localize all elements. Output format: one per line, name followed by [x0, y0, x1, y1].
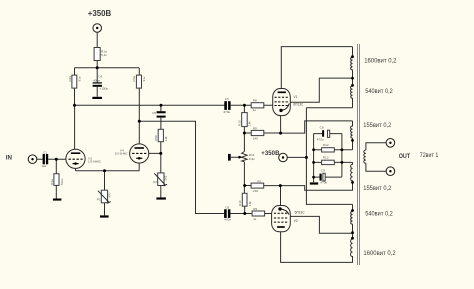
svg-text:1М: 1М [248, 121, 252, 126]
svg-text:+100µ: +100µ [99, 86, 108, 90]
svg-text:R4а: R4а [50, 179, 54, 185]
svg-text:6П13С: 6П13С [295, 210, 306, 214]
svg-text:5,1к: 5,1к [101, 53, 107, 57]
svg-text:91к: 91к [78, 76, 82, 81]
svg-text:С6: С6 [225, 205, 229, 209]
svg-text:R10: R10 [238, 200, 242, 206]
svg-text:510к: 510к [60, 178, 64, 185]
svg-text:72вит 1: 72вит 1 [420, 152, 439, 159]
svg-text:155вит 0,2: 155вит 0,2 [363, 185, 391, 192]
svg-text:С9: С9 [321, 168, 325, 172]
svg-text:IN: IN [6, 154, 12, 161]
svg-text:2к2: 2к2 [164, 175, 168, 180]
svg-text:1/2 6Н8С: 1/2 6Н8С [88, 160, 102, 164]
svg-text:Р2: Р2 [153, 180, 157, 184]
svg-text:540вит 0,2: 540вит 0,2 [365, 210, 393, 217]
svg-text:R5б: R5б [154, 135, 158, 141]
svg-text:155вит 0,2: 155вит 0,2 [363, 122, 391, 129]
svg-text:R10: R10 [238, 120, 242, 126]
svg-text:+350В: +350В [261, 151, 280, 157]
svg-text:91к: 91к [142, 76, 146, 81]
svg-text:V2: V2 [294, 219, 298, 223]
svg-text:С3: С3 [225, 97, 229, 101]
svg-text:1600вит 0,2: 1600вит 0,2 [364, 57, 397, 64]
svg-text:470н: 470н [224, 218, 231, 222]
svg-text:С8: С8 [320, 125, 324, 129]
svg-text:+350В: +350В [88, 8, 112, 18]
svg-text:470п: 470п [320, 181, 327, 185]
svg-text:R7: R7 [257, 180, 261, 184]
svg-text:470н: 470н [223, 110, 230, 114]
svg-text:1М: 1М [164, 136, 168, 141]
svg-text:R9: R9 [253, 126, 257, 130]
svg-text:С1: С1 [43, 150, 47, 154]
svg-text:470: 470 [107, 192, 111, 197]
svg-text:R8: R8 [253, 99, 257, 103]
svg-text:400в: 400в [93, 79, 100, 83]
svg-text:540вит 0,2: 540вит 0,2 [365, 88, 393, 95]
svg-text:R3а: R3а [132, 76, 136, 82]
svg-text:1М: 1М [248, 201, 252, 206]
svg-text:240: 240 [253, 189, 258, 193]
svg-text:С5: С5 [152, 111, 156, 115]
svg-text:240: 240 [253, 137, 258, 141]
svg-text:470п: 470п [317, 137, 324, 141]
svg-text:R2а: R2а [68, 76, 72, 82]
svg-text:6,8к: 6,8к [249, 157, 255, 161]
svg-text:1/2 6Н8С: 1/2 6Н8С [115, 152, 129, 156]
svg-text:R13: R13 [323, 156, 329, 160]
svg-text:R9: R9 [253, 207, 257, 211]
svg-text:1мк: 1мк [41, 164, 47, 168]
svg-text:1600вит 0,2: 1600вит 0,2 [363, 250, 396, 257]
svg-text:Р1: Р1 [97, 198, 101, 202]
svg-text:OUT: OUT [399, 153, 410, 160]
svg-text:6П13С: 6П13С [293, 103, 304, 107]
svg-text:V1: V1 [293, 95, 297, 99]
svg-text:R12: R12 [323, 143, 329, 147]
